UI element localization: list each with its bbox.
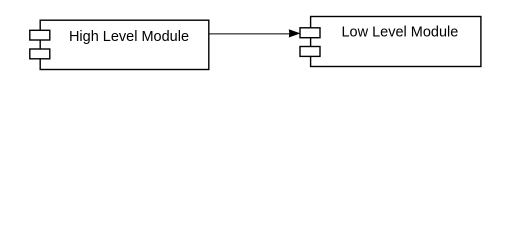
port tab 1 of Low Level Module: [300, 28, 320, 38]
dependency arrow wire from High Level Module to Low Level Module: [210, 30, 299, 37]
label Low Level Module: [341, 24, 458, 40]
svg-text:High Level Module: High Level Module: [69, 29, 189, 45]
component box Low Level Module: [311, 17, 481, 67]
component box High Level Module: [40, 20, 209, 69]
port tab 2 of High Level Module: [30, 49, 50, 59]
svg-text:Low Level Module: Low Level Module: [341, 24, 458, 40]
label High Level Module: [69, 29, 189, 45]
port tab 1 of High Level Module: [30, 30, 50, 40]
port tab 2 of Low Level Module: [300, 47, 320, 57]
